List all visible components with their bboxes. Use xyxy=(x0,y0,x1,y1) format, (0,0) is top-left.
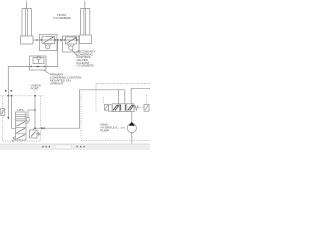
junction dot xyxy=(57,39,59,41)
svg-text:UPRIGHT: UPRIGHT xyxy=(50,81,64,85)
primary lowering control valve xyxy=(30,56,47,70)
branch wire down from junction xyxy=(46,40,58,67)
dashed enclosure left (truck boundary) xyxy=(0,96,44,141)
bottom toolbar xyxy=(0,144,150,150)
svg-text:PORT: PORT xyxy=(31,87,39,91)
right actuator xyxy=(144,104,149,111)
component on left boundary xyxy=(1,109,5,116)
secondary lowering control valve 1 xyxy=(40,35,58,51)
vertical wires into enclosure xyxy=(7,96,9,118)
junction dots on boundary xyxy=(7,95,9,97)
relief valve xyxy=(30,128,41,138)
pump pressure line xyxy=(131,112,133,123)
main wire bottom to right riser xyxy=(35,90,125,128)
svg-text:HTS: HTS xyxy=(18,108,24,112)
HTS valve stack xyxy=(16,112,27,140)
spring below valve xyxy=(12,137,16,143)
right wire from edge xyxy=(131,88,150,104)
main hydraulic pump xyxy=(127,123,136,132)
spring xyxy=(134,106,139,111)
label MAIN HYDRAULIC PUMP xyxy=(101,123,119,133)
branch wires down to control valve xyxy=(117,90,119,104)
hoist cylinder right xyxy=(80,1,92,44)
main control valve xyxy=(108,104,149,112)
leader dashed to port xyxy=(34,91,36,96)
svg-text:CYLINDERS: CYLINDERS xyxy=(53,16,70,20)
pilot box left of valve xyxy=(104,104,108,110)
secondary lowering control valve 2 xyxy=(63,36,80,56)
leader to label xyxy=(44,70,50,74)
dashed enclosure right xyxy=(81,84,150,141)
wire valve1 to valve2 xyxy=(57,39,63,41)
wire left from primary valve and down xyxy=(8,67,29,96)
wire cylinderL to valve1 xyxy=(33,39,40,41)
hoist cylinder left xyxy=(21,1,34,44)
arrow on wire xyxy=(36,39,39,41)
junction dot xyxy=(60,39,62,41)
port marks above boundary xyxy=(5,90,12,92)
label SECONDARY LOWERING CONTROL VALVES IN HOIST CYLINDERS xyxy=(77,50,96,68)
label HOIST CYLINDERS xyxy=(53,13,70,20)
label PRIMARY LOWERING CONTROL MOUNTED ON UPRIGHT xyxy=(50,72,82,85)
suction line xyxy=(131,133,133,144)
svg-text:PUMP: PUMP xyxy=(101,129,109,133)
label CHECK PORT xyxy=(31,84,42,91)
svg-text:CYLINDERS: CYLINDERS xyxy=(77,64,94,68)
